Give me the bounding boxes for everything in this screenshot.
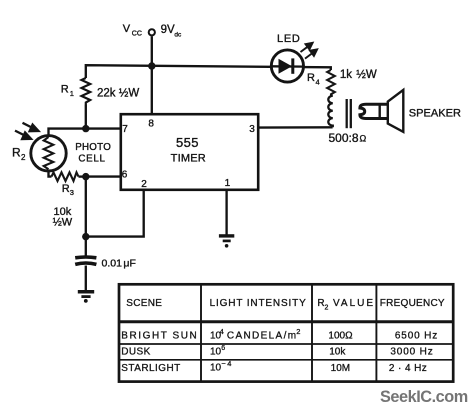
svg-text:4: 4 [220,327,224,336]
svg-text:CELL: CELL [78,153,105,164]
svg-text:6: 6 [122,169,128,180]
svg-text:CANDELA/m: CANDELA/m [227,331,298,342]
svg-text:555: 555 [176,135,199,150]
svg-text:SeekIC.com: SeekIC.com [380,388,468,406]
svg-text:PHOTO: PHOTO [75,142,111,153]
svg-text:R: R [12,146,21,160]
svg-text:½W: ½W [53,217,73,229]
svg-text:1k: 1k [340,69,352,81]
svg-text:7: 7 [122,124,128,135]
svg-text:3: 3 [70,188,74,197]
svg-text:6500 Hz: 6500 Hz [395,331,438,342]
svg-text:LIGHT INTENSITY: LIGHT INTENSITY [210,298,307,309]
svg-text:R: R [61,84,69,96]
svg-text:STARLIGHT: STARLIGHT [121,363,180,374]
svg-text:− 4: − 4 [221,359,231,368]
svg-text:3000 Hz: 3000 Hz [390,347,433,358]
svg-text:500:8: 500:8 [329,131,359,145]
svg-text:10k: 10k [329,347,346,358]
svg-text:10: 10 [210,362,222,373]
svg-text:6: 6 [221,345,225,352]
svg-text:2 · 4 Hz: 2 · 4 Hz [389,363,427,374]
svg-text:CC: CC [132,31,142,38]
svg-text:3: 3 [249,124,255,135]
svg-text:VALUE: VALUE [333,298,375,309]
svg-text:8: 8 [148,119,154,130]
svg-text:2: 2 [141,179,147,190]
svg-text:22k ½W: 22k ½W [97,87,139,99]
svg-text:100Ω: 100Ω [328,331,353,342]
svg-text:Ω: Ω [360,134,367,144]
svg-text:10M: 10M [331,363,350,374]
svg-text:R: R [307,72,315,84]
svg-text:TIMER: TIMER [171,152,206,164]
svg-text:μF: μF [123,258,135,270]
svg-text:BRIGHT SUN: BRIGHT SUN [121,331,198,342]
svg-text:2: 2 [325,305,329,312]
svg-text:0.01: 0.01 [102,258,123,270]
svg-text:1: 1 [225,178,231,189]
svg-text:1: 1 [70,89,74,98]
svg-text:V: V [123,23,131,35]
svg-text:SCENE: SCENE [126,298,162,309]
svg-text:R: R [62,183,70,195]
svg-text:10: 10 [210,347,222,358]
svg-text:dc: dc [174,32,182,39]
svg-text:FREQUENCY: FREQUENCY [380,298,445,309]
svg-text:4: 4 [316,78,320,87]
svg-text:DUSK: DUSK [121,347,150,358]
svg-text:9V: 9V [161,24,175,36]
svg-text:½W: ½W [356,69,377,81]
svg-text:LED: LED [277,33,301,45]
svg-text:2: 2 [296,327,300,336]
svg-text:SPEAKER: SPEAKER [409,107,461,119]
svg-text:2: 2 [21,153,26,162]
